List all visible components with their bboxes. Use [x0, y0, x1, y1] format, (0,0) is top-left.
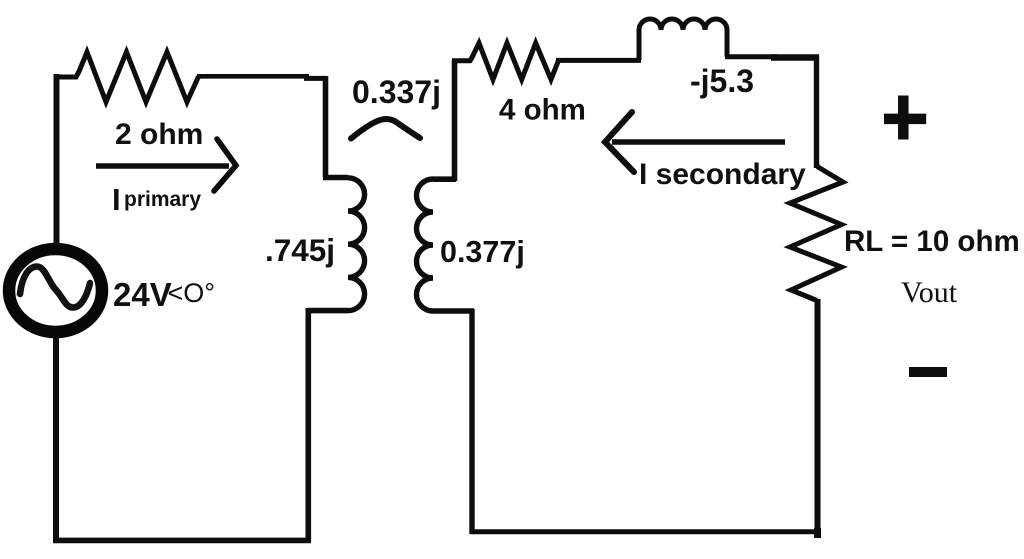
wire: secondary top right horizontal thick	[771, 54, 819, 61]
svg-text:-j5.3: -j5.3	[690, 63, 754, 99]
inductor L3 -j5.3	[639, 19, 727, 60]
source V1 sine wave	[20, 267, 90, 308]
wire: secondary coil top stub	[433, 176, 456, 182]
svg-text:24V: 24V	[113, 276, 172, 313]
arrow: I primary (shaft)	[96, 163, 229, 168]
svg-text:.745j: .745j	[265, 232, 335, 268]
wire: primary right vertical upper	[323, 76, 329, 177]
arrow: I secondary (shaft)	[612, 139, 785, 145]
svg-text:Vout: Vout	[901, 276, 958, 309]
wire: primary bottom horizontal	[53, 538, 311, 544]
wire: secondary right corner nub	[814, 528, 821, 538]
wire: secondary bottom horizontal	[470, 529, 820, 534]
wire: secondary left vertical lower	[469, 309, 474, 534]
minus terminal	[909, 367, 947, 377]
wire: secondary top right horizontal	[725, 54, 777, 59]
coupling arc	[351, 119, 420, 138]
wire: secondary right vertical lower	[815, 299, 821, 532]
resistor R2 4 ohm	[452, 43, 559, 80]
svg-text:primary: primary	[124, 188, 201, 211]
inductor L1 .745j (primary winding)	[348, 178, 365, 311]
source V1 24V circle	[9, 249, 102, 332]
svg-text:0.337j: 0.337j	[352, 74, 441, 110]
svg-text:<O°: <O°	[168, 278, 216, 308]
svg-text:2 ohm: 2 ohm	[115, 118, 203, 151]
wire: primary left vertical (bottom half)	[53, 337, 59, 543]
inductor L2 0.377j (secondary winding)	[417, 179, 433, 311]
svg-text:4 ohm: 4 ohm	[499, 94, 586, 127]
arrow: I primary (head)	[214, 139, 236, 191]
wire: primary coil top stub	[323, 175, 348, 181]
wire: primary right vertical lower	[305, 308, 311, 542]
svg-text:I secondary: I secondary	[639, 158, 806, 191]
arrow: I secondary (head)	[605, 112, 634, 172]
wire: secondary left vertical upper	[452, 60, 458, 181]
svg-text:I: I	[112, 182, 121, 217]
wire: primary left vertical (top half)	[54, 74, 60, 245]
resistor RL 10 ohm (zigzag)	[790, 165, 843, 301]
svg-text:RL = 10 ohm: RL = 10 ohm	[844, 225, 1020, 258]
plus terminal	[884, 96, 926, 140]
wire: secondary right vertical upper	[814, 55, 819, 168]
wire: primary coil bottom stub	[308, 308, 348, 314]
svg-text:0.377j: 0.377j	[440, 235, 525, 269]
wire: primary top horizontal jog	[304, 76, 327, 81]
wire: primary top horizontal	[197, 74, 309, 79]
wire: secondary coil bottom stub	[433, 308, 474, 314]
resistor R1 2 ohm (zigzag + entry wires)	[54, 52, 199, 102]
wire: secondary top horizontal	[556, 58, 641, 63]
